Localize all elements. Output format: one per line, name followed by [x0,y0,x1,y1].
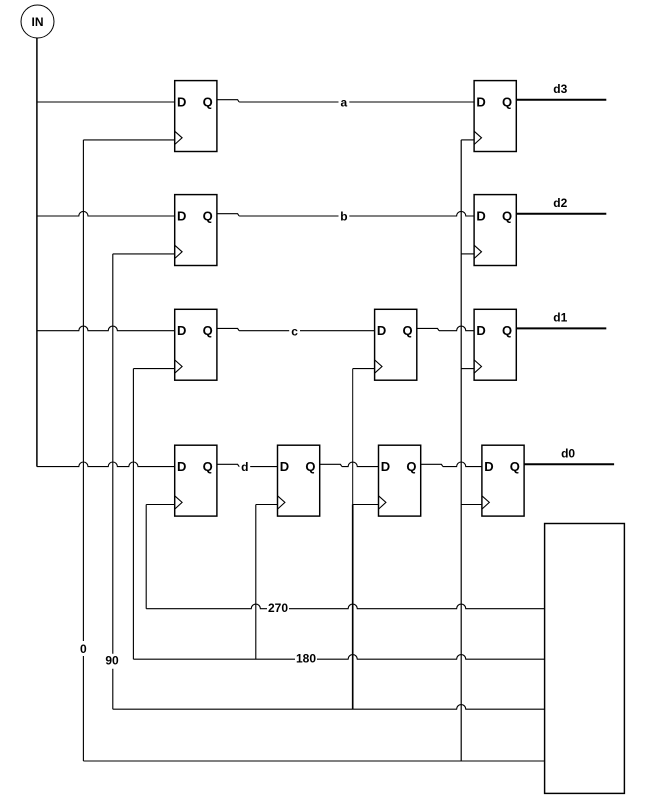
wire: IN to row3 FF D (hops over phase0, phase90 lines) [37,326,175,331]
wire/net a: row1 Q to retime FF D [217,100,239,102]
wire: phase-270 to row4 FF1 clk [146,504,175,506]
wire: phase-0 branch vertical to right column FF clks [460,140,462,761]
svg-text:Q: Q [502,208,512,223]
wire: stub into row4 FF2 clk [256,504,278,506]
svg-text:D: D [476,323,485,338]
D flip-flop U5 (r4c2) [278,445,320,516]
svg-text:b: b [340,210,347,224]
wire: stub into row4 FF3 clk [353,504,379,506]
svg-text:0: 0 [80,642,87,656]
wire: phase-180 run from clock generator (hops at x352,x461) [133,655,544,660]
output net d2 [516,213,606,215]
svg-text:d: d [241,460,248,474]
wire: stub into d0 FF clk [461,504,482,506]
svg-text:D: D [381,459,390,474]
wire: stub into d2 FF clk [461,253,474,255]
output net d3 [516,99,606,101]
svg-text:90: 90 [105,654,119,668]
svg-text:270: 270 [268,601,288,615]
wire: stub into row3 mid FF clk [353,368,375,370]
D flip-flop U1 (r1c1) [175,81,217,152]
wire: stub into d1 FF clk [461,368,474,370]
wire: phase-180 vertical riser [132,369,134,660]
svg-text:d3: d3 [553,82,567,96]
svg-text:D: D [377,323,386,338]
D flip-flop U11 (r4c4) [482,445,524,516]
D flip-flop U2 (r2c1) [175,195,217,266]
svg-text:Q: Q [203,208,213,223]
wire: 90 branch vertical to row3 mid FF clk [352,369,354,505]
D flip-flop U8 (r1c4) [474,81,516,152]
wire: row4 FF3 Q to FF4 D (hop) [421,464,443,466]
svg-text:Q: Q [402,323,412,338]
wire: stub into d3 FF clk [461,139,474,141]
svg-text:D: D [280,459,289,474]
wire: 180 branch vertical to row4 FF2 clk [255,505,257,660]
wire: IN vertical trunk [36,38,38,467]
D flip-flop U3 (r3c1) [175,309,217,380]
wire: phase-90 vertical riser [112,254,114,709]
wire: 90 branch vertical (doubled) to row4 FF3 clk [352,505,354,710]
svg-text:d0: d0 [561,446,575,460]
svg-text:D: D [476,208,485,223]
svg-text:Q: Q [406,459,416,474]
wire: phase-90 run from clock generator (hop at x461) [113,705,545,710]
D flip-flop U4 (r4c1) [175,445,217,516]
svg-text:Q: Q [203,94,213,109]
wire: IN to row1 FF D [37,101,175,103]
wire/net d: row4 Q to FF2 D [217,464,239,466]
svg-text:Q: Q [203,459,213,474]
D flip-flop U6 (r3c3) [375,309,417,380]
svg-text:180: 180 [296,651,316,665]
wire: IN to row4 FF D (hops over phase0, 90, 180 lines) [37,462,175,467]
svg-text:D: D [177,208,186,223]
svg-text:Q: Q [510,459,520,474]
clock generator block U12 (4-phase) [545,524,625,794]
D flip-flop U10 (r3c4) [474,309,516,380]
svg-text:D: D [177,459,186,474]
D flip-flop U7 (r4c3) [379,445,421,516]
output net d0 [524,463,614,465]
svg-text:d1: d1 [553,311,567,325]
wire: phase-180 to row3 FF clk [133,368,174,370]
svg-text:D: D [177,323,186,338]
svg-text:Q: Q [502,94,512,109]
svg-text:D: D [484,459,493,474]
svg-text:D: D [177,94,186,109]
wire: phase-0 to row1 FF clk [83,139,174,141]
svg-text:a: a [341,96,348,110]
wire: phase-270 vertical riser [145,505,147,609]
svg-text:IN: IN [32,15,44,29]
wire: phase-270 run from clock generator (hops at x255,x352,x461) [146,604,544,609]
output net d1 [516,327,606,329]
wire: phase-0 run from clock generator [83,760,544,762]
svg-text:Q: Q [203,323,213,338]
svg-text:Q: Q [305,459,315,474]
wire: phase-90 to row2 FF clk [113,253,175,255]
svg-text:Q: Q [502,323,512,338]
input source IN [21,5,54,38]
wire: phase-0 vertical riser [82,140,84,761]
D flip-flop U9 (r2c4) [474,195,516,266]
wire/net b: row2 Q to retime FF D [217,214,239,216]
svg-text:D: D [476,94,485,109]
wire: row4 FF2 Q to FF3 D (hop) [320,464,342,466]
wire: IN to row2 FF D (hop over phase0 line) [37,211,175,216]
wire/net c: row3 Q to middle FF D [217,328,239,330]
svg-text:c: c [291,324,298,338]
wire: row3 middle FF Q to d1 FF D (hop) [417,328,439,330]
svg-text:d2: d2 [553,196,567,210]
